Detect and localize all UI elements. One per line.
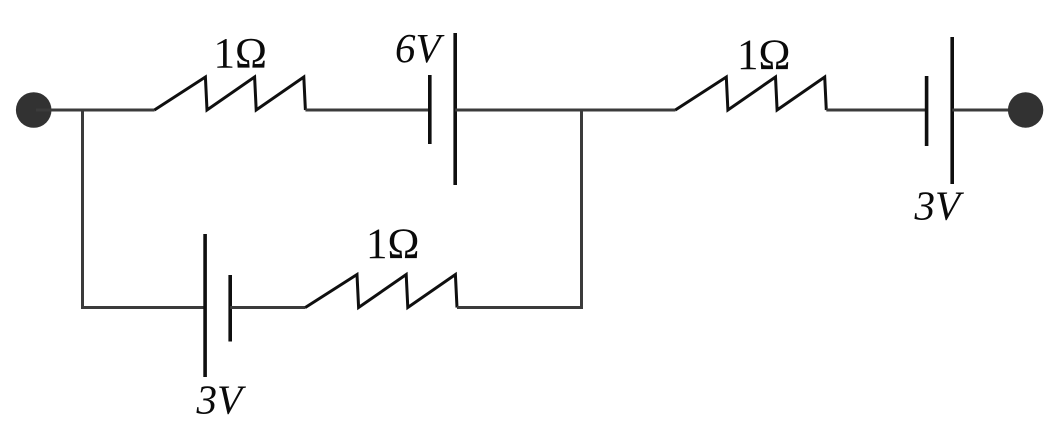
battery V1 (6V): short negative plate [428, 75, 432, 144]
battery V3 (3V): long positive plate [203, 234, 207, 377]
battery V2 (3V): short negative plate [925, 76, 929, 146]
battery V1 (6V): long positive plate [453, 33, 457, 185]
wire: R1 to battery V1 negative plate [305, 109, 429, 112]
svg-text:1Ω: 1Ω [366, 221, 419, 268]
svg-text:3V: 3V [914, 183, 965, 229]
svg-text:3V: 3V [196, 377, 247, 423]
svg-text:1Ω: 1Ω [737, 32, 790, 79]
battery V2 (3V): long positive plate [950, 37, 954, 184]
wire: node A down left side to bottom branch [81, 110, 84, 309]
wire: R3 to node B vertical riser [457, 306, 583, 309]
resistor R1 (1 ohm, top left sawtooth) [154, 77, 305, 110]
terminal node A (left, filled circle) [16, 92, 52, 128]
wire: battery V1 to node B junction and on to resistor R2 [455, 109, 675, 112]
wire: battery V3 to resistor R3 [230, 306, 305, 309]
battery V3 (3V): short negative plate [228, 275, 232, 342]
svg-text:6V: 6V [395, 25, 445, 71]
wire: bottom left corner to battery V3 positive plate [81, 306, 205, 309]
svg-text:1Ω: 1Ω [214, 31, 267, 78]
terminal node C (right, filled circle) [1008, 92, 1043, 127]
wire: battery V2 to terminal node C [952, 109, 1024, 112]
wire: node A to resistor R1 [36, 109, 155, 112]
node B junction: vertical wire down to bottom branch [580, 110, 583, 308]
resistor R3 (1 ohm, bottom sawtooth) [305, 275, 457, 308]
wire: R2 to battery V2 negative plate [826, 109, 926, 112]
resistor R2 (1 ohm, top right sawtooth) [675, 77, 826, 110]
